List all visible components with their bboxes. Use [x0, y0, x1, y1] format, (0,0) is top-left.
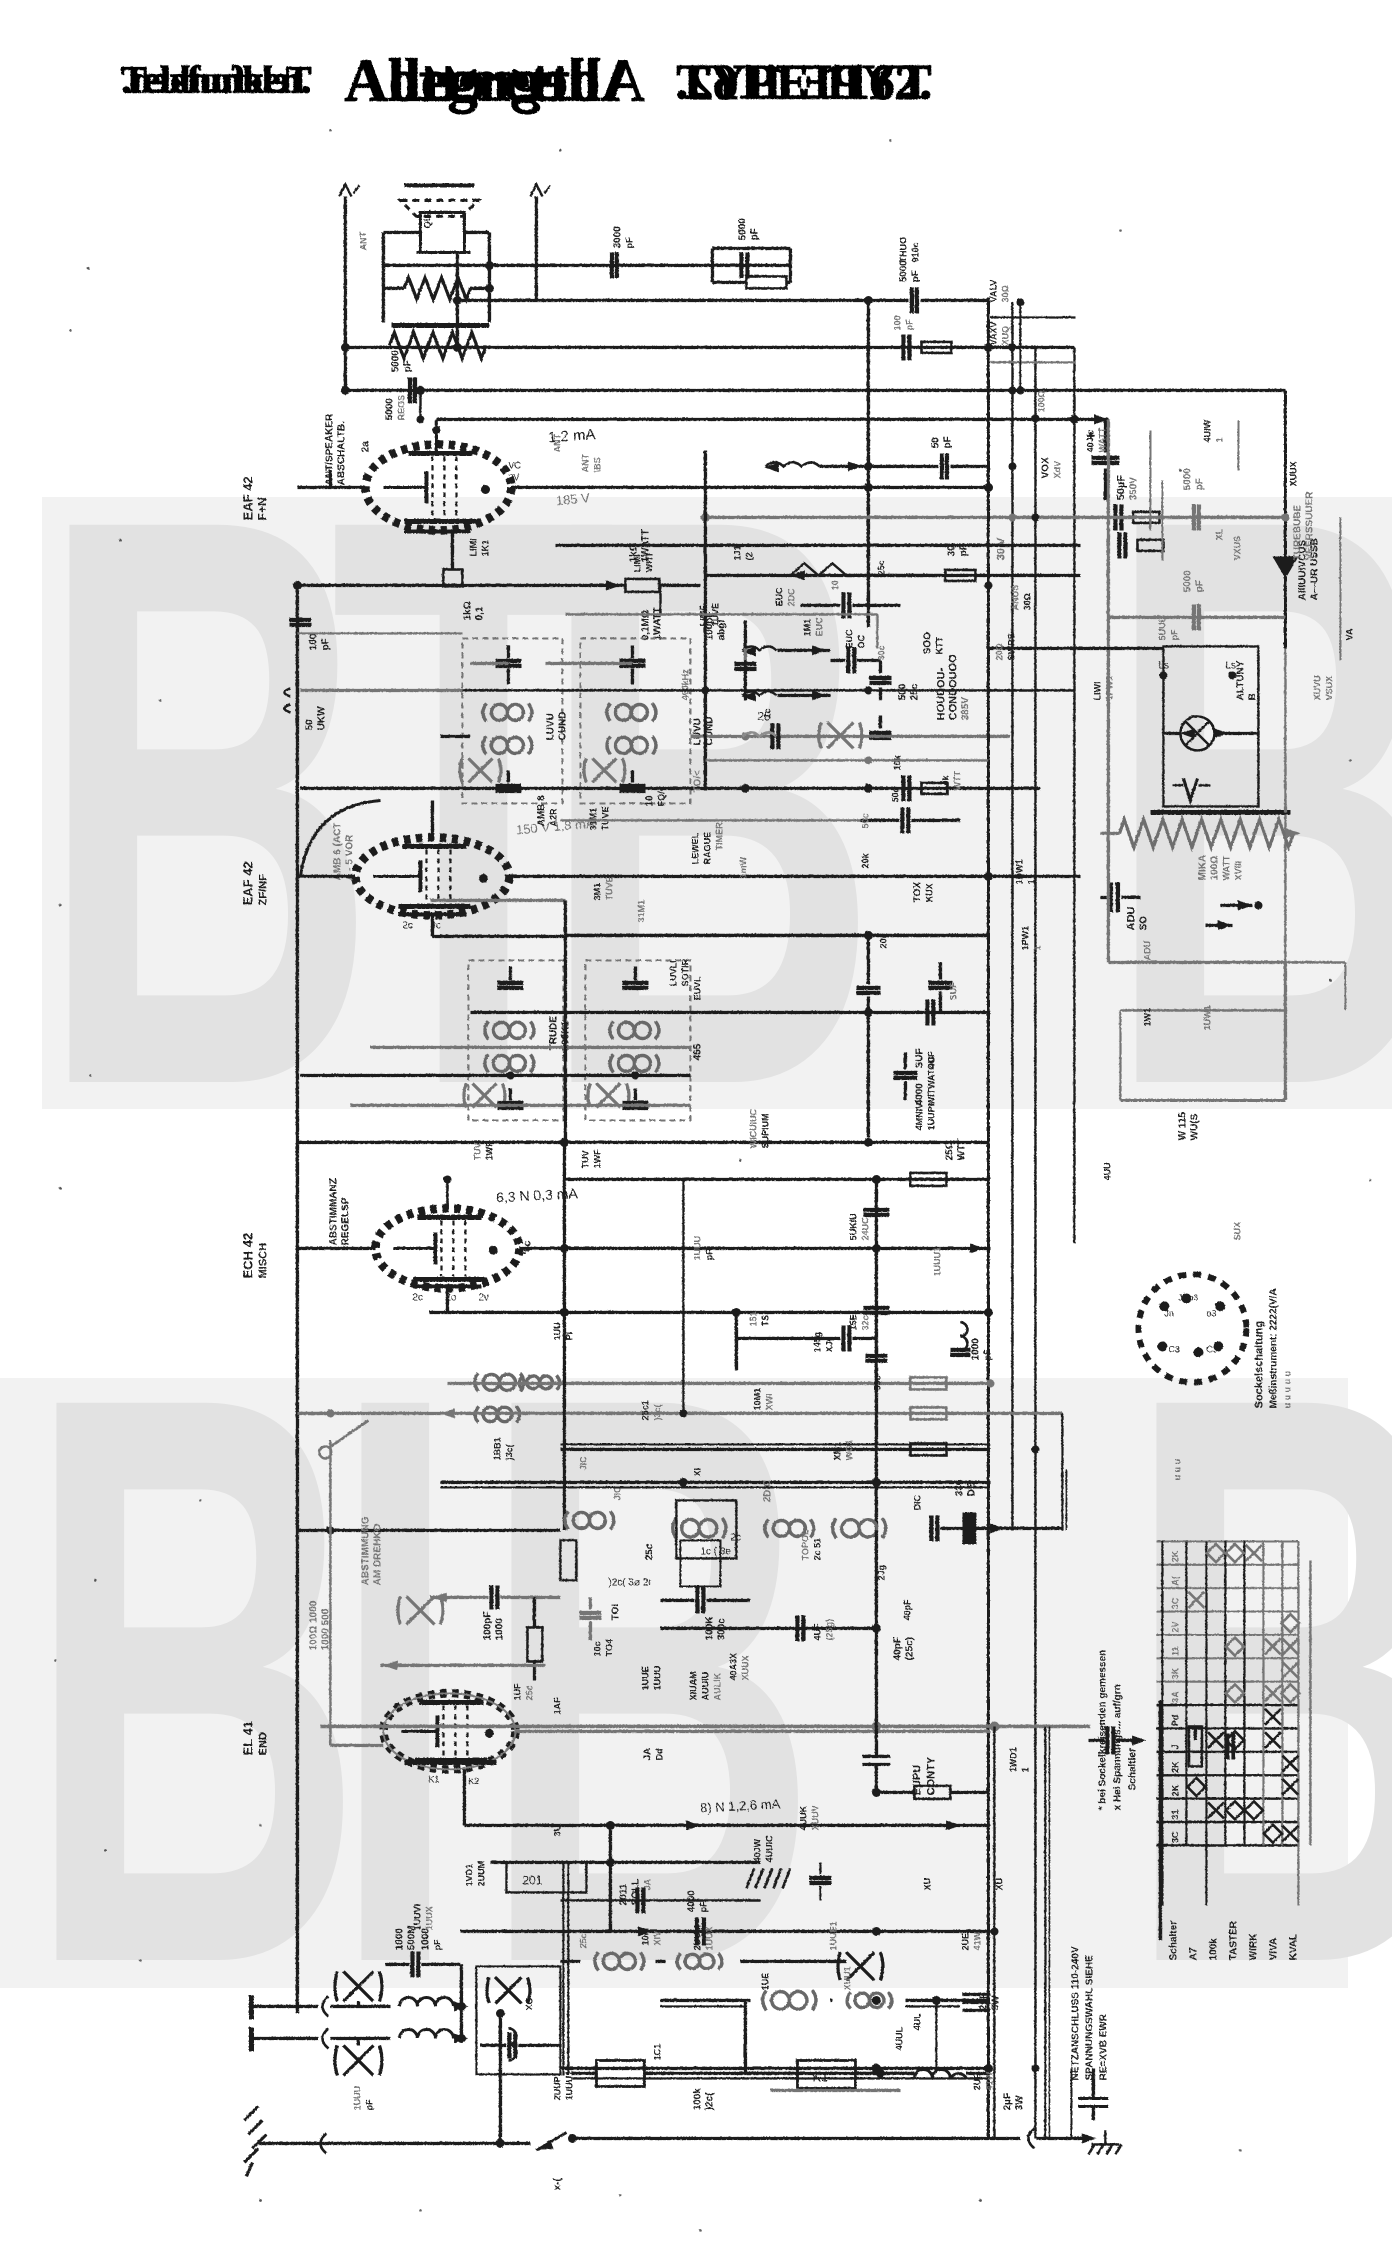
output transformer Tr2: [416, 212, 470, 252]
IF1 coil a1: [483, 703, 532, 721]
svg-text:1UUPI: 1UUPI: [926, 1103, 936, 1130]
svg-text:5UKIU: 5UKIU: [848, 1213, 858, 1240]
svg-text:Sockelschaltung: Sockelschaltung: [1253, 1321, 1265, 1408]
svg-text:40pF: 40pF: [902, 1598, 912, 1620]
misc dots bottom: [872, 1996, 881, 2005]
svg-text:DIC: DIC: [912, 1494, 922, 1510]
arrows right: [1238, 900, 1252, 910]
arc u2: [300, 800, 380, 876]
svg-text:100Ω: 100Ω: [1209, 855, 1220, 880]
scan speck row: [87, 267, 90, 270]
wire top bus 2: [457, 298, 868, 301]
svg-text:1UUE: 1UUE: [640, 1666, 650, 1690]
vert b: [455, 252, 458, 347]
title text (doubled print): [121, 47, 932, 113]
svg-text:1DW1: 1DW1: [1014, 859, 1024, 884]
svg-text:1UUX: 1UUX: [424, 1906, 434, 1930]
resistor R2: [389, 332, 486, 358]
svg-text:A7: A7: [1188, 1947, 1199, 1960]
svg-text:Allegretto: Allegretto: [389, 47, 644, 113]
svg-text:WO1: WO1: [844, 1439, 854, 1460]
IF2 cap b: [622, 980, 648, 984]
svg-text:XUQ: XUQ: [1000, 325, 1010, 345]
svg-text:3M1: 3M1: [592, 882, 602, 900]
svg-text:50: 50: [930, 436, 941, 448]
vert 461: [459, 1964, 462, 2038]
svg-text:A - 5 VOR: A - 5 VOR: [344, 833, 355, 880]
electrolytic C+: [1091, 455, 1119, 459]
wire bus 3: [345, 345, 1074, 348]
svg-text:5000: 5000: [737, 217, 748, 240]
mixer caps: [929, 1515, 933, 1541]
resistor R3 box: [625, 579, 659, 592]
svg-text:2c 51: 2c 51: [812, 1537, 822, 1560]
svg-text:W 115: W 115: [1177, 1111, 1188, 1140]
svg-text:REGELSP: REGELSP: [340, 1197, 351, 1245]
svg-text:WATT: WATT: [1097, 427, 1107, 452]
wire 2068: [560, 2066, 990, 2069]
cap 2045: [507, 2032, 511, 2058]
wire u4 grid: [330, 1743, 383, 1746]
cap 900b: [893, 1070, 917, 1074]
svg-text:2c: 2c: [402, 920, 413, 931]
coil row A1: [475, 1373, 524, 1391]
hatch jumper: [746, 1868, 790, 1888]
tube U4 EL41: [383, 1693, 515, 1769]
svg-text:TOI: TOI: [610, 1603, 621, 1620]
vert 745b: [743, 2000, 746, 2068]
cap c5: [901, 334, 905, 360]
cap C9: [1113, 504, 1117, 530]
svg-text:LUVU: LUVU: [545, 713, 556, 740]
wire u1 grid: [297, 485, 365, 488]
wire 1012: [470, 1010, 990, 1013]
svg-text:LUVU: LUVU: [692, 718, 703, 745]
svg-text:5000: 5000: [1182, 569, 1193, 592]
IF2 box B: [585, 960, 690, 1120]
svg-text:2V: 2V: [1170, 1621, 1180, 1632]
svg-text:0,1: 0,1: [474, 606, 485, 620]
svg-text:25c1: 25c1: [640, 1400, 650, 1420]
svg-text:TUVE: TUVE: [600, 806, 610, 830]
svg-text:o3: o3: [1206, 1308, 1216, 1318]
vert 500: [498, 2013, 501, 2143]
vert 660 top: [659, 585, 661, 614]
svg-text:TUVE: TUVE: [604, 876, 614, 900]
svg-text:XUUX: XUUX: [740, 1655, 750, 1680]
xbox u4: [398, 1596, 443, 1624]
svg-text:pF: pF: [320, 638, 331, 650]
vert 745: [743, 620, 746, 700]
svg-text:2UUM: 2UUM: [692, 1924, 702, 1950]
wire 1100r: [1120, 1099, 1285, 1102]
wire top bus 1: [389, 263, 790, 266]
tube1 top wire: [435, 419, 438, 430]
svg-text:pF: pF: [942, 436, 953, 448]
wire 2090 gray: [770, 2088, 900, 2091]
ant box: [476, 1966, 560, 2074]
cap 876 up1: [863, 1207, 889, 1211]
svg-text:1UUE1: 1UUE1: [828, 1921, 838, 1950]
rbox 1792: [914, 1786, 950, 1799]
svg-text:3C: 3C: [1170, 1831, 1180, 1843]
svg-text:Jn o3: Jn o3: [1178, 1293, 1198, 1302]
vert 330 gray: [329, 1440, 331, 1745]
svg-text:151: 151: [748, 1311, 758, 1326]
switch S3c: [742, 732, 776, 736]
IF2 coil b2: [610, 1054, 659, 1072]
svg-text:A(: A(: [1170, 1576, 1180, 1586]
antenna arrow b: [530, 184, 542, 196]
wire 1665: [380, 1663, 545, 1666]
vert 1345: [1344, 962, 1346, 1010]
svg-text:VOX: VOX: [1040, 457, 1051, 478]
svg-text:1WD1: 1WD1: [1008, 1747, 1018, 1772]
svg-text:30 V: 30 V: [995, 537, 1007, 560]
svg-text:Ls: Ls: [1158, 660, 1169, 671]
svg-text:3K: 3K: [1170, 1667, 1180, 1679]
svg-text:Pd: Pd: [1170, 1714, 1180, 1726]
svg-text:XdV: XdV: [1052, 460, 1062, 478]
wire 1482: [440, 1480, 990, 1483]
wire 1137: [297, 1140, 988, 1143]
svg-text:31M1: 31M1: [636, 899, 646, 922]
capacitor C4: [407, 377, 411, 403]
svg-text:x-(: x-(: [552, 2177, 563, 2190]
svg-text:XI: XI: [692, 1467, 702, 1476]
svg-text:1UF: 1UF: [512, 1682, 522, 1700]
box 201: [506, 1862, 586, 1892]
cap 1964: [410, 1951, 414, 1977]
cap on 788: [901, 775, 905, 801]
svg-text:50c: 50c: [860, 813, 870, 828]
cap 940a: [925, 999, 929, 1025]
svg-text:2Jg: 2Jg: [876, 1564, 886, 1580]
svg-text:40JW: 40JW: [752, 1838, 762, 1862]
svg-text:1UUU: 1UUU: [352, 2085, 362, 2110]
svg-text:30: 30: [946, 544, 957, 556]
vert 1108: [1106, 419, 1109, 962]
wire bus 5: [436, 417, 1108, 420]
svg-text:XU: XU: [994, 1877, 1004, 1890]
svg-text:pF: pF: [432, 1939, 442, 1950]
svg-text:RAGUE: RAGUE: [702, 831, 712, 864]
svg-text:30Ω: 30Ω: [1000, 285, 1010, 302]
cap 820row: [900, 807, 904, 833]
svg-text:)3c(: )3c(: [504, 1444, 514, 1460]
svg-text:*: *: [433, 425, 447, 430]
IF2 xc b: [588, 1083, 629, 1107]
svg-text:REGS: REGS: [396, 394, 406, 420]
bar above dropper: [1150, 810, 1290, 815]
svg-text:20k: 20k: [860, 852, 870, 868]
vert 876c: [874, 1179, 877, 1530]
coil row A2: [475, 1406, 520, 1422]
svg-text:25c: 25c: [578, 1933, 588, 1948]
ant coil b: [508, 2028, 516, 2060]
IF1 box A: [462, 638, 562, 803]
svg-text:PI: PI: [564, 1331, 574, 1340]
svg-text:JIC: JIC: [578, 1455, 588, 1470]
svg-text:B: B: [1105, 350, 1392, 1254]
wire 1449: [560, 1447, 990, 1450]
svg-text:XUU1: XUU1: [842, 1966, 852, 1990]
svg-text:Telefunken.: Telefunken.: [121, 59, 311, 101]
svg-text:3A: 3A: [1170, 1690, 1180, 1702]
svg-text:4UF: 4UF: [812, 1622, 822, 1640]
coil row2000: [762, 1990, 815, 2010]
svg-text:TUV: TUV: [472, 1142, 482, 1160]
bus V4: [1073, 347, 1075, 1243]
svg-text:pF: pF: [910, 270, 921, 282]
cap 1931: [694, 1917, 698, 1945]
svg-text:WIRK: WIRK: [1248, 1933, 1259, 1960]
mid caps extra: [734, 661, 756, 665]
svg-text:1VD1: 1VD1: [464, 1863, 474, 1886]
svg-text:4UIW: 4UIW: [1202, 419, 1212, 442]
svg-text:'6c: '6c: [522, 1240, 533, 1254]
wire 760: [705, 759, 988, 761]
IF1 cap b3: [619, 783, 645, 787]
svg-text:2UE: 2UE: [972, 2072, 982, 2090]
wire u2 grid: [297, 874, 355, 877]
svg-text:1000: 1000: [494, 1617, 505, 1640]
svg-text:2011: 2011: [618, 1883, 629, 1905]
wire 1825: [464, 1823, 990, 1826]
svg-text:25c: 25c: [644, 1543, 655, 1560]
wire u4 out: [515, 1729, 990, 1732]
svg-text:K1: K1: [812, 2069, 828, 2084]
separator bar: [391, 323, 489, 328]
svg-text:WICUIUC: WICUIUC: [748, 1108, 758, 1148]
svg-text:3W: 3W: [990, 1994, 1001, 2010]
svg-text:40A3X: 40A3X: [728, 1652, 738, 1680]
svg-text:5UUU: 5UUU: [1157, 615, 1167, 640]
IF1 coil b2: [607, 736, 656, 754]
wire 1900: [560, 1899, 760, 1901]
svg-text:32c: 32c: [860, 1315, 870, 1330]
vert 994 low: [993, 1726, 995, 2138]
svg-text:ANUS: ANUS: [1010, 584, 1020, 610]
svg-text:KTT: KTT: [934, 636, 944, 654]
svg-text:(2: (2: [744, 552, 754, 560]
coils 1961: [595, 1952, 644, 1970]
cap C7 left: [284, 688, 290, 712]
svg-text:LIMI: LIMI: [632, 554, 642, 572]
svg-text:20c: 20c: [878, 933, 888, 948]
svg-text:1K1: 1K1: [480, 539, 490, 556]
svg-text:)3c(: )3c(: [652, 1404, 662, 1420]
svg-text:2K: 2K: [1170, 1761, 1180, 1773]
svg-text:2a: 2a: [360, 440, 371, 452]
u2 inner extra: [398, 912, 466, 916]
res 302: [527, 1627, 542, 1661]
svg-text:EAF 42: EAF 42: [240, 861, 255, 905]
svg-text:EL 41: EL 41: [240, 1721, 255, 1755]
svg-text:XUUV: XUUV: [810, 1805, 820, 1830]
svg-text:EUC: EUC: [774, 586, 784, 606]
svg-text:1UU: 1UU: [552, 1322, 562, 1340]
switch S2: [765, 462, 819, 466]
svg-text:100k: 100k: [692, 2087, 703, 2110]
svg-text:4UL: 4UL: [912, 2012, 922, 2030]
svg-text:31M1: 31M1: [588, 807, 598, 830]
coil ant2: [399, 2029, 453, 2038]
IF2 box A: [468, 960, 563, 1120]
cap 746: [770, 723, 774, 749]
svg-text:Schalter: Schalter: [1168, 1920, 1179, 1960]
svg-text:1UUU1: 1UUU1: [932, 1246, 942, 1276]
svg-text:LIMI: LIMI: [468, 538, 478, 556]
IF1 cap a: [495, 658, 521, 662]
wire 617r: [1108, 615, 1285, 618]
bus V6 right edge: [1339, 517, 1341, 660]
svg-text:5000: 5000: [384, 397, 395, 420]
svg-text:10M: 10M: [640, 1927, 650, 1945]
rbox 1383: [910, 1377, 946, 1389]
osc block caps2: [695, 1587, 699, 1613]
extra bus dots: [984, 483, 993, 492]
wire 2006b: [660, 2005, 745, 2007]
svg-text:END: END: [257, 1732, 269, 1755]
IF1 cap a3: [495, 783, 521, 787]
svg-text:2K: 2K: [1170, 1784, 1180, 1796]
svg-text:ANT: ANT: [552, 433, 562, 452]
svg-text:1WATT: 1WATT: [652, 607, 663, 640]
tube U1 EAF42: [365, 444, 511, 530]
svg-text:4UUIC: 4UUIC: [764, 1834, 774, 1862]
IF1 coil a2: [483, 736, 532, 754]
svg-text:SUF: SUF: [914, 1048, 925, 1068]
svg-text:10c: 10c: [592, 1641, 602, 1656]
svg-text:10: 10: [644, 794, 655, 806]
svg-text:1UE: 1UE: [760, 1972, 770, 1990]
svg-text:4UF: 4UF: [926, 1050, 936, 1068]
capacitor C3: [909, 287, 913, 313]
svg-text:1c: 1c: [762, 708, 772, 718]
earth antenna: [244, 2106, 266, 2176]
svg-text:25Ω: 25Ω: [944, 1141, 955, 1160]
wire 690 long: [300, 688, 462, 691]
bus V2: [1011, 302, 1013, 1530]
svg-text:pF: pF: [698, 1901, 708, 1912]
wire 788: [300, 786, 1040, 789]
svg-text:2V: 2V: [508, 472, 519, 482]
watermark band 1 (decorative): [38, 350, 1392, 1254]
svg-text:WITI: WITI: [644, 553, 654, 572]
svg-text:2UUM: 2UUM: [476, 1860, 486, 1886]
xcap ant1: [335, 1971, 382, 2001]
rbox 1179: [910, 1173, 946, 1186]
svg-text:1WF: 1WF: [484, 1141, 494, 1161]
svg-text:2c: 2c: [730, 1532, 741, 1543]
svg-text:1: 1: [1020, 1767, 1030, 1772]
svg-text:EUVL: EUVL: [692, 975, 702, 1000]
wire 1312: [429, 1310, 990, 1313]
vert a: [343, 196, 346, 390]
svg-text:4MNIV: 4MNIV: [914, 1102, 924, 1130]
switch S4: [319, 1446, 331, 1458]
svg-text:50µF: 50µF: [1115, 474, 1127, 500]
svg-text:AMB 8: AMB 8: [536, 794, 547, 826]
svg-text:1UUU1: 1UUU1: [564, 2070, 574, 2100]
vert c: [534, 196, 537, 300]
svg-text:XIUAM: XIUAM: [688, 1671, 698, 1700]
wire u2 up: [430, 800, 433, 837]
vert 1071: [1070, 2068, 1072, 2138]
wire speaker box: [381, 232, 384, 322]
svg-text:1WF: 1WF: [592, 1149, 602, 1169]
svg-text:1M1: 1M1: [802, 618, 812, 636]
tube1 inner extra: [404, 529, 470, 533]
vert 420 top: [419, 390, 421, 419]
svg-text:20Ω: 20Ω: [994, 643, 1004, 660]
svg-text:5000: 5000: [1182, 467, 1193, 490]
svg-text:24UC: 24UC: [860, 1216, 870, 1240]
wire 2143: [258, 2141, 500, 2144]
wire 1010 r: [1120, 1009, 1285, 1011]
svg-text:SOTIR: SOTIR: [680, 958, 690, 986]
cap C10: [846, 647, 850, 673]
cap C2 pair: [739, 252, 743, 278]
svg-text:2DIC: 2DIC: [762, 1479, 773, 1502]
antenna arrow a: [339, 184, 351, 196]
svg-text:KVAL: KVAL: [1288, 1934, 1299, 1960]
meter V: [1183, 778, 1197, 800]
svg-text:4UU: 4UU: [1102, 1162, 1112, 1180]
speaker LS: [400, 185, 478, 216]
wire 820b: [560, 819, 860, 821]
svg-text:pF: pF: [982, 1349, 992, 1360]
top right ladder: [990, 316, 1075, 318]
svg-text:1UUU: 1UUU: [652, 1665, 662, 1690]
svg-text:B: B: [1247, 693, 1258, 700]
wire 1075: [300, 1073, 690, 1076]
svg-text:EAF 42: EAF 42: [240, 476, 255, 520]
svg-text:2µF: 2µF: [978, 1993, 989, 2010]
svg-text:K2: K2: [468, 1776, 479, 1786]
svg-text:NETZANSCHLUSS 110-240V: NETZANSCHLUSS 110-240V: [1070, 1946, 1081, 2080]
IF1 xc a: [460, 758, 501, 782]
svg-text:XL: XL: [1214, 528, 1224, 540]
speck field: [69, 329, 72, 332]
svg-text:AULIK: AULIK: [712, 1672, 722, 1700]
svg-text:10M1: 10M1: [752, 1387, 762, 1410]
svg-text:pF: pF: [364, 2099, 374, 2110]
svg-text:455: 455: [692, 1043, 703, 1060]
vert 565: [563, 900, 566, 1142]
wire 1413: [300, 1411, 1062, 1414]
IF2 cap a3: [497, 1100, 523, 1104]
wire 648r: [988, 647, 1163, 650]
svg-text:TO/<: TO/<: [692, 770, 703, 792]
svg-text:TUV: TUV: [580, 1150, 590, 1168]
svg-text:1c ( 3e ): 1c ( 3e ): [700, 1546, 737, 1557]
watermark band 2 (decorative): [0, 1228, 1392, 2132]
vert 564b: [562, 1248, 565, 1530]
svg-text:)2c( 3ø 2r: )2c( 3ø 2r: [608, 1577, 652, 1588]
svg-text:1000 500: 1000 500: [320, 1608, 331, 1650]
svg-text:2v: 2v: [478, 1292, 489, 1303]
svg-text:25c: 25c: [909, 683, 920, 700]
svg-text:1: 1: [1026, 879, 1036, 884]
svg-text:pF: pF: [904, 319, 914, 330]
wire u3 row: [297, 1246, 375, 1249]
socket diagram: [1138, 1274, 1246, 1382]
svg-text:ANT: ANT: [358, 231, 368, 250]
svg-text:QUL: QUL: [422, 209, 432, 229]
svg-text:WU(S: WU(S: [1189, 1113, 1200, 1140]
